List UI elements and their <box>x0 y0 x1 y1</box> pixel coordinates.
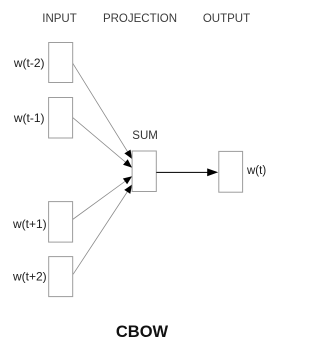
input box w(t-2) <box>49 43 73 83</box>
output box w(t) <box>219 151 243 192</box>
svg-text:w(t-2): w(t-2) <box>13 56 45 70</box>
wire from input box w(t-1) to SUM <box>72 117 132 167</box>
wire from input box w(t+1) to SUM <box>73 176 133 219</box>
arrowhead into SUM from w(t+1) <box>123 176 132 184</box>
wire from input box w(t+2) to SUM <box>73 185 132 275</box>
svg-text:INPUT: INPUT <box>42 13 77 25</box>
svg-text:SUM: SUM <box>132 130 158 142</box>
svg-text:w(t): w(t) <box>246 165 266 177</box>
svg-text:w(t+2): w(t+2) <box>12 270 47 284</box>
input box w(t+2) <box>49 257 73 297</box>
svg-text:w(t-1): w(t-1) <box>13 111 45 125</box>
arrowhead into output box <box>207 168 218 176</box>
arrowhead into SUM from w(t-1) <box>123 159 132 167</box>
input box w(t-1) <box>49 98 73 139</box>
svg-text:w(t+1): w(t+1) <box>12 217 47 231</box>
wire from input box w(t-2) to SUM <box>73 63 132 159</box>
projection box SUM <box>132 151 156 192</box>
arrowhead into SUM from w(t+2) <box>124 185 132 194</box>
svg-text:OUTPUT: OUTPUT <box>203 13 250 25</box>
wire from SUM to output box <box>156 171 210 173</box>
svg-text:PROJECTION: PROJECTION <box>103 13 177 25</box>
arrowhead into SUM from w(t-2) <box>124 150 132 159</box>
svg-text:CBOW: CBOW <box>116 323 169 341</box>
input box w(t+1) <box>49 202 73 243</box>
